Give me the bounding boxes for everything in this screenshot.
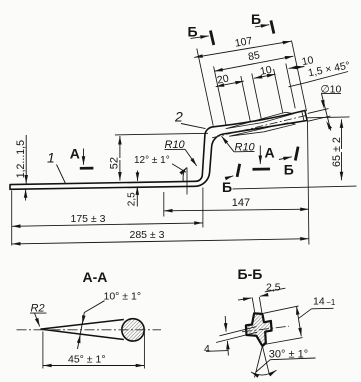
svg-text:147: 147: [232, 197, 250, 209]
svg-text:2: 2: [174, 109, 183, 125]
cross-shaped section (hatched): [246, 313, 272, 346]
flattening transition sliver top: [226, 112, 294, 128]
svg-text:12° ± 1°: 12° ± 1°: [134, 155, 170, 166]
svg-text:10° ± 1°: 10° ± 1°: [104, 291, 142, 303]
svg-text:А-А: А-А: [83, 269, 108, 285]
svg-text:285 ± 3: 285 ± 3: [130, 229, 165, 241]
long extension line right of lower B: [233, 186, 357, 189]
svg-text:45° ± 1°: 45° ± 1°: [68, 353, 106, 365]
rod outline (main view of bent part): [10, 111, 307, 190]
svg-text:14: 14: [313, 295, 325, 307]
flattening transition sliver bottom: [230, 123, 296, 136]
vertical extension from tip down: [308, 122, 309, 245]
svg-text:Б: Б: [188, 23, 198, 39]
extension lines for top dimension block (perpendicular to rod): [197, 49, 213, 126]
svg-text:Б: Б: [251, 11, 261, 27]
svg-text:175 ± 3: 175 ± 3: [71, 213, 106, 225]
centerline of diagonal section: [212, 116, 306, 138]
svg-text:А: А: [265, 145, 275, 161]
section A-A centerline: [17, 329, 162, 331]
svg-text:85: 85: [247, 49, 261, 63]
section B-B centerline: [242, 326, 289, 332]
svg-text:1: 1: [47, 150, 55, 166]
svg-text:−1: −1: [326, 298, 336, 307]
svg-text:4: 4: [204, 343, 210, 355]
extension from bar left end down: [11, 191, 13, 246]
svg-text:Б-Б: Б-Б: [238, 266, 263, 282]
chamfer line at tip: [302, 111, 304, 121]
svg-text:1,2...1,5: 1,2...1,5: [15, 140, 27, 178]
svg-text:52: 52: [109, 157, 121, 169]
extension at x=202.9: [202, 188, 204, 228]
wedge (flattened tip side view): [40, 320, 123, 340]
svg-text:Б: Б: [284, 161, 294, 177]
rod cross-section circle hatched: [122, 319, 144, 341]
svg-text:2,5: 2,5: [126, 192, 137, 206]
tip edge extension lines: [308, 109, 329, 114]
extension at x=163.8: [163, 192, 165, 217]
svg-text:А: А: [70, 146, 80, 162]
svg-text:107: 107: [234, 35, 253, 50]
svg-text:Б: Б: [222, 179, 232, 195]
